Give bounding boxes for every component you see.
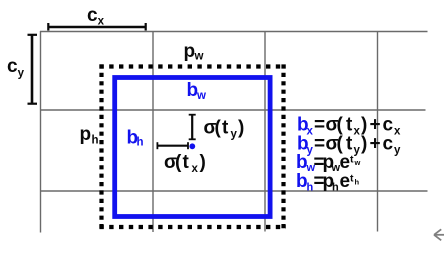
- prior box (dotted) top edge: [99, 64, 285, 68]
- sigma(t_x) offset bar: [157, 142, 188, 149]
- box center dot: [189, 143, 195, 149]
- grid vertical line 3: [264, 31, 266, 232]
- predicted box (blue): [115, 78, 270, 217]
- grid horizontal line 1: [40, 31, 428, 33]
- svg-text:σ(tx): σ(tx): [164, 152, 206, 175]
- prior box (dotted) right edge: [281, 64, 285, 229]
- grid vertical line 2: [152, 31, 154, 232]
- c_x measurement line: [48, 23, 146, 31]
- grid vertical line 4: [377, 31, 379, 232]
- prior box (dotted) bottom edge: [99, 225, 285, 229]
- prior box (dotted) left edge: [99, 64, 103, 229]
- grid horizontal line 2: [40, 109, 426, 111]
- sigma(t_y) offset bar: [189, 115, 196, 140]
- svg-text:bh=pheth: bh=pheth: [296, 171, 360, 193]
- grid horizontal line 3: [40, 190, 428, 192]
- c_y measurement line: [28, 35, 38, 105]
- svg-text:σ(ty): σ(ty): [204, 118, 245, 141]
- left arrow at bottom right: [434, 229, 444, 240]
- grid vertical line 1: [40, 31, 42, 233]
